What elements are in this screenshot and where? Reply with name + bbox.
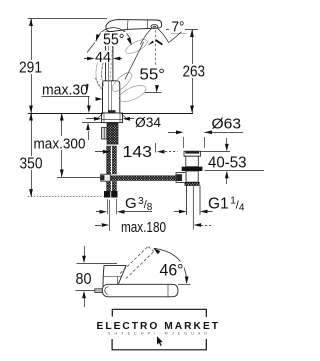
- dimension 143 (outlet projection): [95, 151, 103, 153]
- logo frame: [112, 309, 206, 317]
- svg-text:max.30: max.30: [42, 81, 88, 98]
- threaded shank: [107, 123, 118, 145]
- plan view spout: [102, 284, 178, 297]
- lever swing leader left: [95, 78, 101, 90]
- svg-text:44: 44: [95, 49, 111, 66]
- dimension 44 (lever offset): [101, 34, 107, 81]
- dimension max.180 (tap to drain): [109, 200, 111, 231]
- hose lower section and G3/8 nuts: [107, 181, 117, 191]
- dimension 263 (spout outlet height): [192, 30, 194, 114]
- dimension max.300 (hose length): [61, 113, 63, 177]
- dimension 80 (plan depth): [84, 246, 86, 256]
- pull rod knob: [102, 128, 107, 140]
- tee fitting: [101, 174, 111, 181]
- svg-text:max.300: max.300: [34, 136, 86, 153]
- floor reference line: [28, 196, 104, 198]
- label G1 1/4 (trap thread): [174, 211, 180, 213]
- svg-text:143: 143: [123, 144, 153, 161]
- svg-text:7°: 7°: [172, 19, 185, 36]
- faucet spout side view: [106, 20, 162, 32]
- svg-text:46°: 46°: [160, 262, 184, 280]
- top height reference line: [28, 18, 107, 20]
- svg-text:max.180: max.180: [121, 219, 166, 236]
- plan view top extension line: [77, 263, 118, 265]
- escutcheon base at deck: [102, 113, 123, 123]
- svg-text:Ø63: Ø63: [212, 115, 242, 132]
- dimension Ø34 (hole diameter): [86, 118, 95, 120]
- deck top line: [28, 113, 193, 115]
- spout outlet reference tick: [166, 29, 198, 31]
- angle 55deg lower (spout swivel): [125, 42, 144, 79]
- svg-text:263: 263: [183, 64, 206, 81]
- drain tailpipe: [186, 186, 188, 215]
- spout 7-deg reference tick: [171, 33, 187, 35]
- angle 7deg label: [169, 21, 185, 33]
- faucet body column: [106, 32, 113, 81]
- svg-text:291: 291: [19, 60, 42, 77]
- plan view faucet body: [103, 266, 126, 287]
- label G3/8 (supply thread): [107, 199, 109, 214]
- vertical braided supply hoses: [107, 146, 117, 174]
- svg-text:40-53: 40-53: [208, 154, 247, 171]
- mouse cursor: [157, 336, 164, 346]
- angle 55deg upper (lever swing): [96, 28, 132, 45]
- dimension 291 (faucet height): [31, 19, 33, 114]
- svg-text:350: 350: [20, 156, 43, 173]
- svg-text:80: 80: [76, 271, 92, 288]
- svg-text:55°: 55°: [140, 67, 166, 84]
- dimension 40-53 (flange height range): [201, 151, 231, 153]
- plan view bottom extension line: [76, 290, 103, 292]
- angle 46deg (lever swing plan): [154, 248, 187, 283]
- plan view lever (dashed, raised): [120, 247, 148, 274]
- angle valve on drain: [176, 173, 186, 183]
- dimension Ø63 (drain flange): [168, 132, 176, 134]
- svg-text:Ø34: Ø34: [135, 114, 161, 130]
- deck bottom line: [82, 122, 102, 124]
- horizontal braided hose: [111, 176, 177, 181]
- ghost lever positions (thin outlines): [124, 37, 149, 56]
- dimension 350 (deck to floor ref): [31, 113, 33, 197]
- drain pop-up waste body: [184, 151, 201, 156]
